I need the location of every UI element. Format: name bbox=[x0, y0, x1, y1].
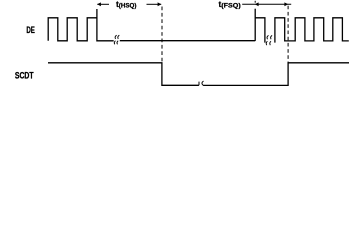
dimension t(FSQ) right arrowhead bbox=[284, 2, 288, 6]
break symbol SCDT arc bbox=[202, 81, 204, 86]
break symbol DE right curl 1 bbox=[266, 35, 268, 45]
wire DE right pulse train bbox=[275, 18, 349, 43]
wire DE falling edge with extension up bbox=[97, 9, 114, 41]
break symbol SCDT tick bbox=[198, 82, 200, 86]
dimension t(HSQ) left arrow bbox=[97, 3, 109, 5]
wire SCDT low line right and rising edge bbox=[203, 63, 349, 86]
dashed line 3 at t(FSQ) end bbox=[287, 6, 289, 63]
svg-text:SCDT: SCDT bbox=[15, 71, 34, 81]
break symbol DE left curl 2 bbox=[117, 35, 119, 44]
break symbol DE right curl 2 bbox=[270, 35, 272, 45]
dashed stub 2 above t(FSQ) start edge bbox=[254, 1, 256, 3]
wire DE rising edge right with extension up bbox=[254, 9, 256, 41]
svg-text:(FSQ): (FSQ) bbox=[221, 2, 240, 9]
dimension t(FSQ) leader and span line bbox=[242, 3, 291, 5]
dashed line 1 at t(HSQ) end bbox=[161, 7, 163, 63]
wire SCDT high line left bbox=[48, 63, 199, 86]
dimension t(HSQ) right arrow bbox=[147, 3, 162, 5]
svg-text:DE: DE bbox=[26, 25, 35, 35]
svg-text:(HSQ): (HSQ) bbox=[119, 2, 137, 9]
wire DE pulse train left bbox=[48, 18, 97, 41]
break symbol DE left curl 1 bbox=[114, 35, 116, 44]
wire DE right pulse top and fall into break bbox=[255, 18, 265, 43]
dimension t(FSQ) left arrowhead bbox=[255, 2, 259, 6]
wire DE low line middle bbox=[120, 40, 255, 42]
